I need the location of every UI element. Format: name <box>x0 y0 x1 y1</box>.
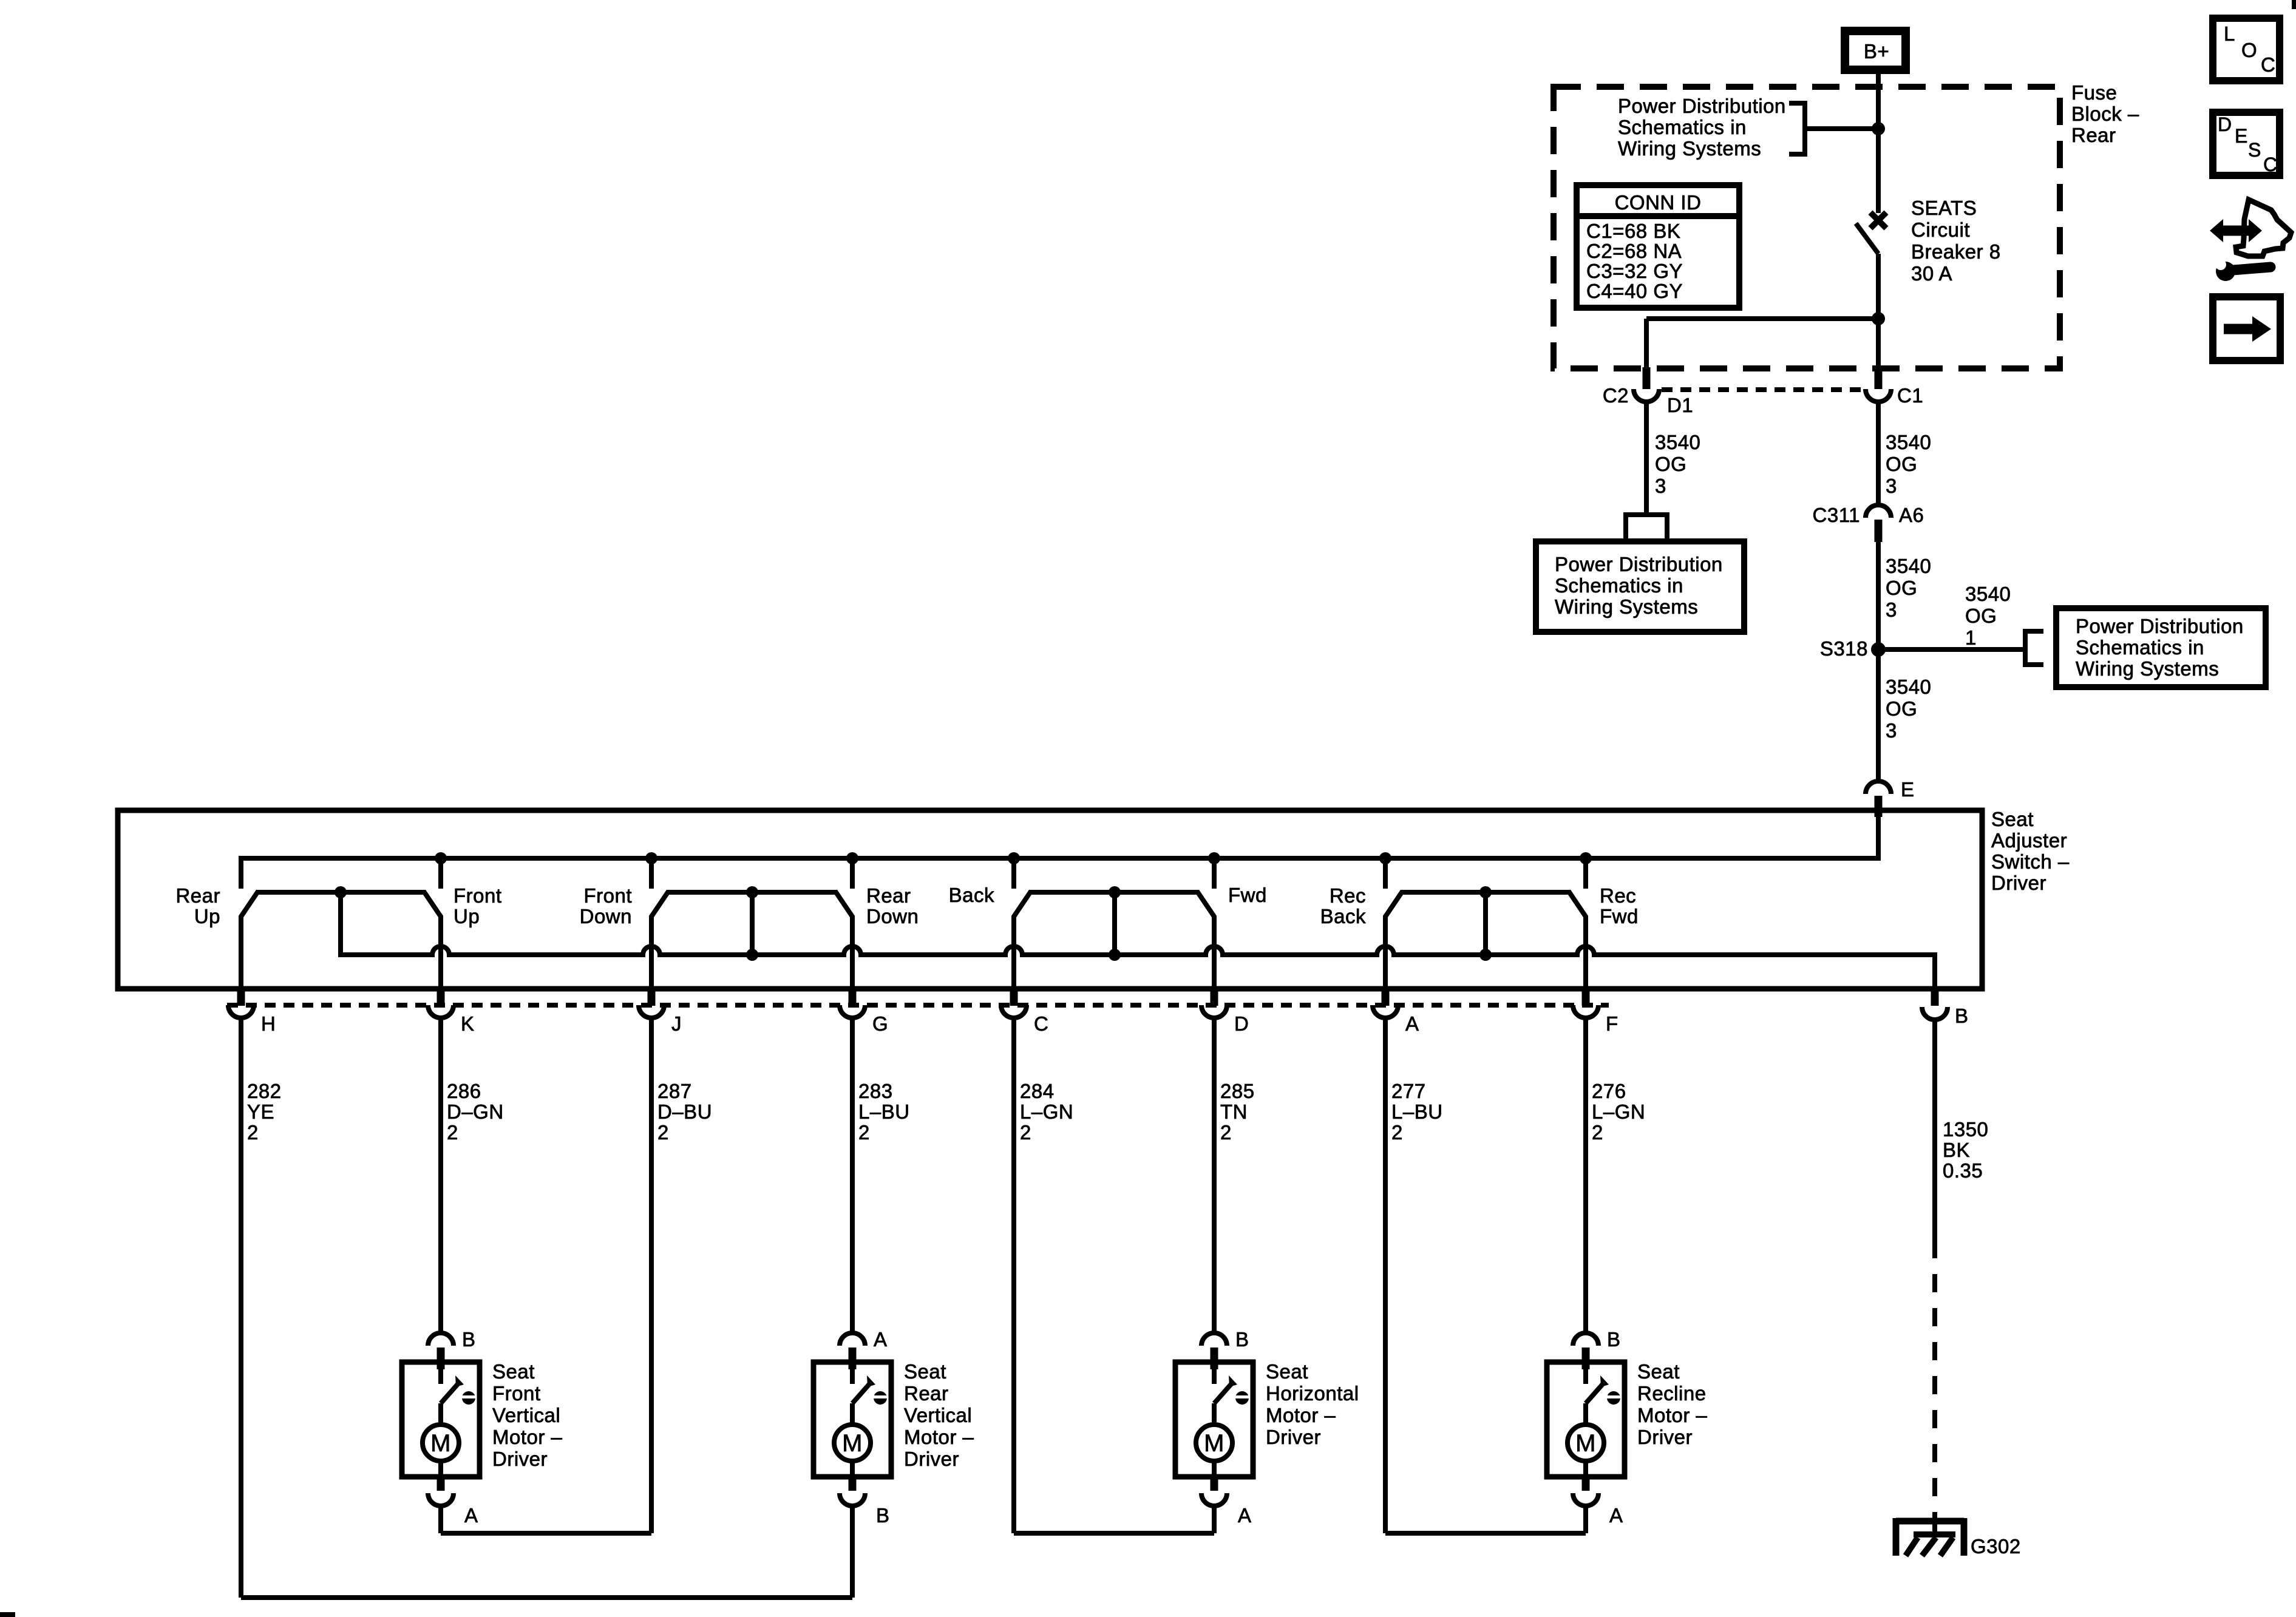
svg-text:Driver: Driver <box>1991 872 2046 894</box>
svg-text:284: 284 <box>1020 1080 1055 1102</box>
svg-text:Rear: Rear <box>866 884 911 907</box>
svg-text:3: 3 <box>1886 719 1897 742</box>
svg-text:2: 2 <box>1391 1121 1403 1144</box>
svg-text:O: O <box>2241 39 2257 61</box>
svg-text:C2=68 NA: C2=68 NA <box>1586 240 1682 262</box>
svg-text:L–GN: L–GN <box>1020 1100 1073 1123</box>
svg-text:3540: 3540 <box>1965 583 2011 605</box>
svg-text:D: D <box>1234 1012 1249 1035</box>
svg-text:L–BU: L–BU <box>858 1100 910 1123</box>
svg-text:L–GN: L–GN <box>1592 1100 1645 1123</box>
svg-text:0.35: 0.35 <box>1943 1159 1983 1182</box>
svg-text:276: 276 <box>1592 1080 1626 1102</box>
svg-text:E: E <box>2235 125 2248 147</box>
svg-text:3540: 3540 <box>1655 431 1700 453</box>
svg-text:1: 1 <box>1965 626 1977 649</box>
svg-text:S318: S318 <box>1820 637 1868 660</box>
svg-text:Front: Front <box>583 884 632 907</box>
svg-text:Fuse: Fuse <box>2071 81 2117 104</box>
svg-text:Seat: Seat <box>1637 1360 1680 1383</box>
svg-text:3540: 3540 <box>1886 555 1931 577</box>
svg-text:C1: C1 <box>1897 384 1923 407</box>
svg-text:D–BU: D–BU <box>657 1100 712 1123</box>
svg-text:Driver: Driver <box>1266 1426 1321 1448</box>
svg-text:Recline: Recline <box>1637 1382 1707 1405</box>
svg-text:A: A <box>1238 1504 1252 1527</box>
svg-text:Power Distribution: Power Distribution <box>2076 615 2244 637</box>
svg-text:285: 285 <box>1220 1080 1255 1102</box>
svg-text:A: A <box>874 1328 888 1351</box>
svg-text:Switch –: Switch – <box>1991 850 2070 873</box>
svg-text:YE: YE <box>247 1100 274 1123</box>
svg-text:C1=68 BK: C1=68 BK <box>1586 220 1680 242</box>
svg-text:L–BU: L–BU <box>1391 1100 1443 1123</box>
svg-text:Motor –: Motor – <box>1266 1404 1336 1426</box>
svg-text:C311: C311 <box>1813 504 1860 526</box>
svg-text:C4=40 GY: C4=40 GY <box>1586 280 1683 302</box>
svg-text:Front: Front <box>492 1382 541 1405</box>
svg-text:Down: Down <box>580 905 632 927</box>
svg-text:283: 283 <box>858 1080 893 1102</box>
svg-text:CONN ID: CONN ID <box>1615 191 1702 214</box>
svg-text:30 A: 30 A <box>1911 262 1952 285</box>
svg-text:A: A <box>1609 1504 1623 1527</box>
svg-text:Rear: Rear <box>175 884 220 907</box>
svg-text:Seat: Seat <box>1266 1360 1308 1383</box>
svg-text:E: E <box>1901 778 1915 801</box>
svg-text:3: 3 <box>1886 598 1897 621</box>
svg-text:C: C <box>2263 154 2278 175</box>
svg-text:D1: D1 <box>1667 394 1693 416</box>
svg-text:B+: B+ <box>1864 40 1889 63</box>
svg-text:Rec: Rec <box>1600 884 1636 907</box>
svg-text:Up: Up <box>453 905 480 927</box>
svg-text:H: H <box>261 1012 276 1035</box>
svg-text:G302: G302 <box>1971 1535 2021 1558</box>
svg-text:OG: OG <box>1886 453 1917 475</box>
svg-text:Driver: Driver <box>492 1448 548 1470</box>
svg-text:Motor –: Motor – <box>904 1426 974 1448</box>
svg-text:Adjuster: Adjuster <box>1991 829 2067 852</box>
svg-text:OG: OG <box>1886 697 1917 720</box>
svg-text:277: 277 <box>1391 1080 1426 1102</box>
svg-text:K: K <box>461 1012 475 1035</box>
svg-text:M: M <box>1204 1430 1224 1457</box>
svg-text:1350: 1350 <box>1943 1118 1988 1141</box>
svg-text:286: 286 <box>447 1080 481 1102</box>
svg-text:C2: C2 <box>1603 384 1629 407</box>
svg-text:Fwd: Fwd <box>1228 884 1267 906</box>
svg-text:Block –: Block – <box>2071 103 2139 125</box>
svg-text:S: S <box>2248 139 2261 161</box>
svg-text:B: B <box>1235 1328 1249 1351</box>
svg-text:Back: Back <box>1320 905 1366 927</box>
svg-text:L: L <box>2224 22 2235 45</box>
svg-text:Power Distribution: Power Distribution <box>1618 95 1786 117</box>
svg-text:M: M <box>842 1430 863 1457</box>
svg-text:TN: TN <box>1220 1100 1248 1123</box>
svg-text:Wiring Systems: Wiring Systems <box>1618 137 1761 160</box>
svg-text:2: 2 <box>1592 1121 1603 1144</box>
svg-text:BK: BK <box>1943 1139 1970 1161</box>
svg-text:Up: Up <box>194 905 220 927</box>
svg-text:Schematics in: Schematics in <box>2076 636 2204 659</box>
svg-text:Seat: Seat <box>1991 808 2034 830</box>
svg-text:2: 2 <box>247 1121 259 1144</box>
svg-text:Motor –: Motor – <box>1637 1404 1708 1426</box>
svg-text:Fwd: Fwd <box>1600 905 1639 927</box>
svg-text:Driver: Driver <box>904 1448 959 1470</box>
svg-text:2: 2 <box>858 1121 870 1144</box>
svg-text:A6: A6 <box>1899 504 1924 526</box>
svg-text:B: B <box>1607 1328 1621 1351</box>
svg-text:M: M <box>1575 1430 1596 1457</box>
svg-text:D: D <box>2218 114 2232 135</box>
svg-text:A: A <box>464 1504 478 1527</box>
svg-text:2: 2 <box>1020 1121 1031 1144</box>
svg-text:B: B <box>876 1504 890 1527</box>
svg-text:Power Distribution: Power Distribution <box>1555 553 1723 575</box>
svg-text:3540: 3540 <box>1886 431 1931 453</box>
svg-text:A: A <box>1405 1012 1419 1035</box>
svg-text:OG: OG <box>1965 605 1997 627</box>
svg-text:Vertical: Vertical <box>904 1404 972 1426</box>
svg-text:C3=32 GY: C3=32 GY <box>1586 260 1683 282</box>
svg-text:3540: 3540 <box>1886 676 1931 698</box>
svg-text:3: 3 <box>1886 475 1897 497</box>
svg-text:287: 287 <box>657 1080 692 1102</box>
svg-text:Back: Back <box>949 884 994 906</box>
svg-text:B: B <box>1955 1005 1969 1027</box>
svg-text:Rear: Rear <box>904 1382 949 1405</box>
svg-text:Seat: Seat <box>904 1360 946 1383</box>
svg-text:Front: Front <box>453 884 502 907</box>
svg-text:D–GN: D–GN <box>447 1100 504 1123</box>
svg-text:Seat: Seat <box>492 1360 535 1383</box>
svg-text:Wiring Systems: Wiring Systems <box>2076 657 2219 680</box>
svg-text:282: 282 <box>247 1080 282 1102</box>
svg-text:OG: OG <box>1886 577 1917 599</box>
svg-text:Breaker 8: Breaker 8 <box>1911 240 2001 263</box>
svg-text:Motor –: Motor – <box>492 1426 563 1448</box>
svg-text:J: J <box>671 1012 682 1035</box>
svg-text:Wiring Systems: Wiring Systems <box>1555 595 1698 618</box>
svg-text:Vertical: Vertical <box>492 1404 560 1426</box>
svg-text:OG: OG <box>1655 453 1686 475</box>
svg-text:Schematics in: Schematics in <box>1555 574 1683 597</box>
svg-text:2: 2 <box>657 1121 669 1144</box>
svg-text:Driver: Driver <box>1637 1426 1693 1448</box>
svg-text:Horizontal: Horizontal <box>1266 1382 1359 1405</box>
svg-text:M: M <box>430 1430 451 1457</box>
svg-text:Rear: Rear <box>2071 124 2116 146</box>
svg-text:Down: Down <box>866 905 919 927</box>
svg-text:C: C <box>2261 53 2275 76</box>
svg-text:3: 3 <box>1655 475 1666 497</box>
svg-text:Schematics in: Schematics in <box>1618 116 1747 138</box>
svg-text:G: G <box>872 1012 888 1035</box>
svg-text:B: B <box>462 1328 476 1351</box>
svg-text:SEATS: SEATS <box>1911 197 1977 219</box>
svg-text:F: F <box>1606 1012 1618 1035</box>
svg-text:C: C <box>1034 1012 1048 1035</box>
svg-text:2: 2 <box>1220 1121 1232 1144</box>
svg-text:Rec: Rec <box>1330 884 1366 907</box>
svg-text:2: 2 <box>447 1121 458 1144</box>
svg-text:Circuit: Circuit <box>1911 219 1970 241</box>
